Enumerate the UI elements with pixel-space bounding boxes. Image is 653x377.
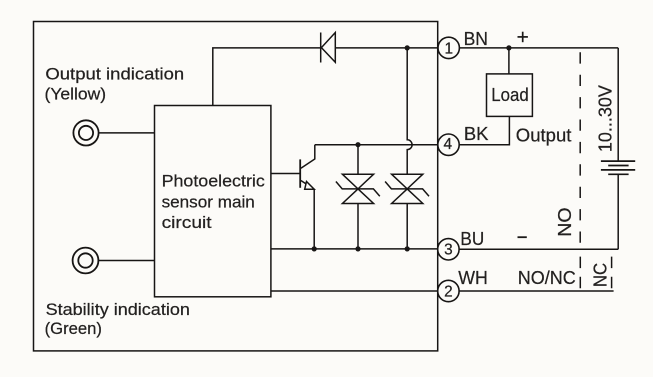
terminal 1 [438,37,459,58]
wire: terminal 2 NO/NC lead [459,290,613,292]
svg-text:circuit: circuit [162,213,212,232]
wire: BN rail diode to terminal 1 [335,47,438,49]
svg-text:WH: WH [458,267,488,288]
label + [518,32,528,43]
svg-text:4: 4 [444,136,453,153]
svg-text:sensor main: sensor main [162,192,255,211]
transistor Q1 (NPN output) [271,145,315,249]
wire: TVS1 top vertical [357,145,359,175]
junction: TVS1 top [355,142,360,147]
svg-text:2: 2 [444,283,453,300]
junction: BN rail / TVS2 branch [405,45,410,50]
svg-text:BN: BN [464,28,488,49]
wire: battery to supply - [617,174,619,249]
junction: TVS2 bottom on 0V rail [405,246,410,251]
sensor housing outline [34,22,438,351]
wire: load to terminal 4 [459,116,509,144]
svg-text:Output: Output [516,124,572,145]
yellow LED indicator [73,120,98,145]
load [487,74,533,117]
junction: emitter on 0V rail [312,246,317,251]
svg-text:(Green): (Green) [45,319,102,338]
junction: load branch [506,45,511,50]
terminal 2 [438,280,459,301]
diode D1 (reverse polarity protection) [321,33,336,63]
battery BT1 [601,161,635,174]
wire: BK rail with hop over TVS2 branch [315,144,438,146]
wire: green indicator to main circuit [99,260,155,262]
label - [518,236,527,238]
wire: supply + down to battery [617,48,619,161]
svg-text:BK: BK [464,123,489,144]
junction: TVS1 bottom on 0V rail [355,246,360,251]
wire: yellow indicator to main circuit [99,132,155,134]
svg-text:BU: BU [460,228,484,249]
photoelectric sensor main circuit block U1 [155,106,271,297]
svg-text:Output indication: Output indication [45,64,184,83]
wire: junction to load [508,48,510,74]
svg-text:10...30V: 10...30V [594,85,615,153]
TVS diode Z2 (bidirectional) [385,174,429,249]
svg-text:Stability indication: Stability indication [46,300,190,319]
svg-text:NC: NC [590,263,611,287]
TVS diode Z1 (bidirectional) [336,174,380,249]
terminal 4 [438,134,459,155]
wire: terminal 1 to supply + [459,47,618,49]
wire: TVS2 branch vertical [407,48,412,174]
terminal 3 [438,239,459,260]
dashed NC stub left [579,257,581,289]
wire: 0V rail [271,248,438,250]
svg-text:1: 1 [445,40,454,57]
dashed NO path [579,52,581,249]
green LED indicator [73,248,99,274]
svg-text:NO: NO [554,207,575,236]
svg-text:Photoelectric: Photoelectric [162,172,265,191]
svg-text:Load: Load [491,85,528,105]
dashed NC stub right [611,257,613,289]
svg-text:3: 3 [444,242,453,259]
svg-text:(Yellow): (Yellow) [45,84,107,103]
wire: WH lead inside housing [271,290,438,292]
svg-text:NO/NC: NO/NC [518,267,576,288]
wire: terminal 3 to supply - [459,248,618,250]
wire: main circuit top to BN rail [213,48,321,106]
